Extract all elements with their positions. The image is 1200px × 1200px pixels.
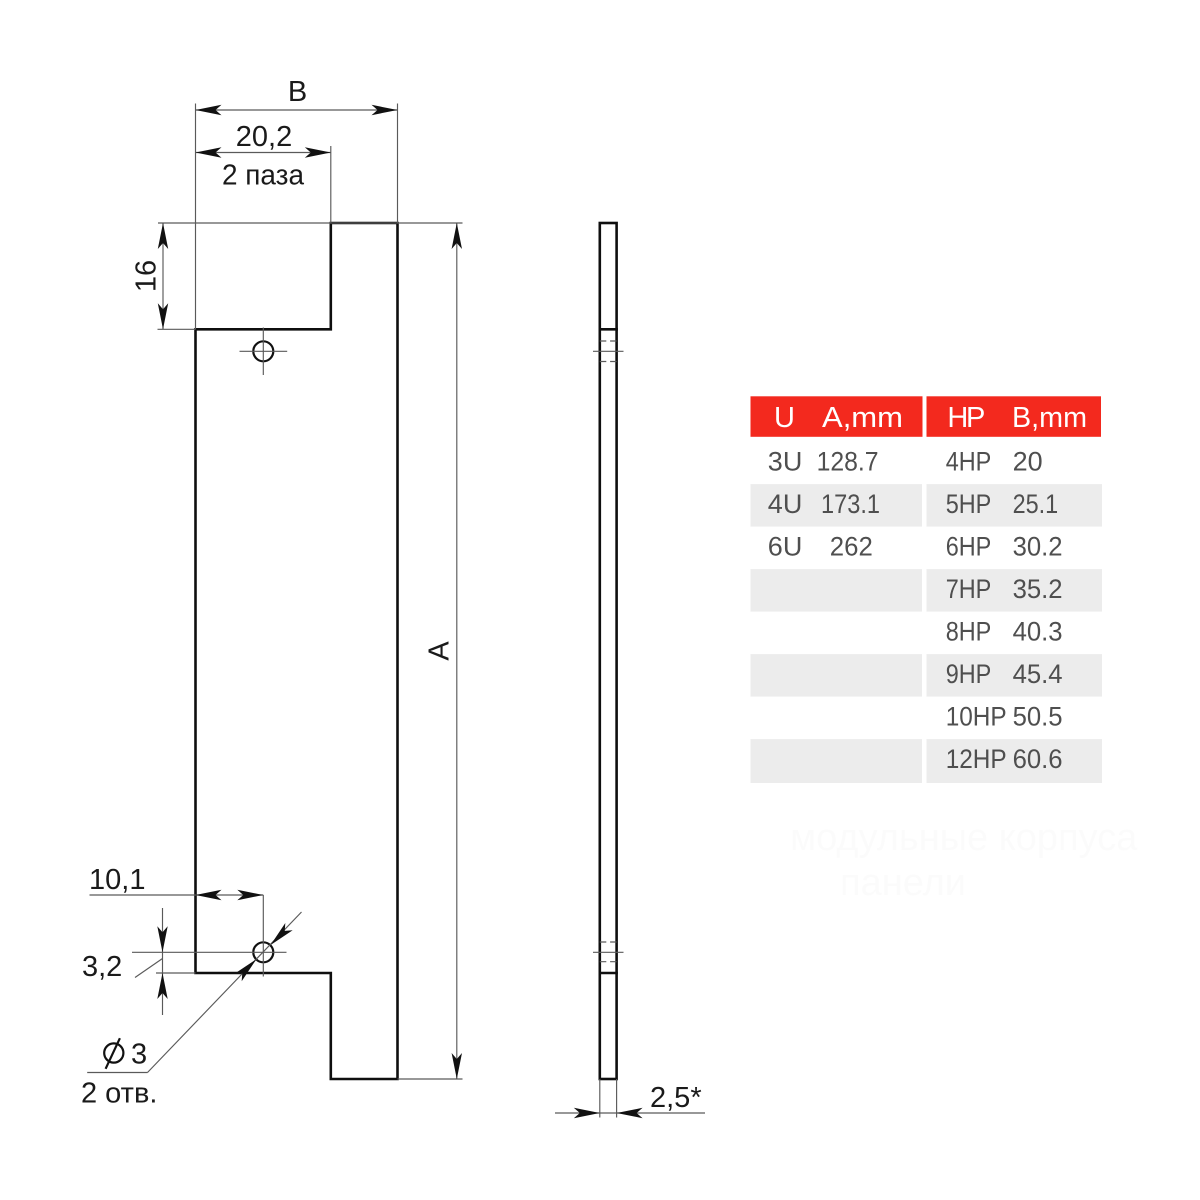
- svg-text:A,mm: A,mm: [822, 402, 903, 434]
- svg-text:2,5*: 2,5*: [650, 1082, 702, 1114]
- dimension 3,2: [162, 908, 164, 1015]
- hole H1 crosshair: [240, 350, 288, 352]
- svg-text:6HP: 6HP: [946, 532, 992, 562]
- diameter symbol: [104, 1043, 123, 1062]
- svg-text:6U: 6U: [768, 532, 803, 562]
- svg-text:20: 20: [1013, 447, 1043, 477]
- hole H2 centerline vertical: [262, 895, 264, 977]
- hidden hole bottom: [600, 941, 617, 943]
- extension line bottom edge y=1079: [398, 1078, 463, 1080]
- panel outline: [196, 223, 398, 1079]
- svg-text:3: 3: [131, 1039, 147, 1071]
- svg-text:B: B: [288, 76, 307, 108]
- svg-text:4HP: 4HP: [946, 447, 992, 477]
- svg-text:B,mm: B,mm: [1012, 402, 1087, 434]
- svg-text:10,1: 10,1: [89, 864, 145, 896]
- svg-text:3,2: 3,2: [82, 951, 122, 983]
- svg-text:A: A: [424, 641, 456, 661]
- svg-text:25.1: 25.1: [1013, 489, 1059, 519]
- svg-text:7HP: 7HP: [946, 574, 992, 604]
- side view outline: [600, 223, 617, 1079]
- leader 3,2: [135, 959, 163, 978]
- faint watermark: [790, 817, 1138, 904]
- row stripes: [751, 484, 1103, 783]
- dimension 20,2: [196, 152, 331, 154]
- svg-text:262: 262: [830, 532, 873, 562]
- svg-text:8HP: 8HP: [946, 617, 992, 647]
- svg-text:40.3: 40.3: [1013, 617, 1063, 647]
- extension line B right: [397, 104, 399, 224]
- side notch edge top: [600, 328, 617, 331]
- svg-text:50.5: 50.5: [1013, 702, 1063, 732]
- extension line 3,2 lower: [156, 972, 196, 974]
- extension line notch bottom left: [158, 328, 196, 330]
- svg-text:12HP: 12HP: [946, 744, 1007, 774]
- dimension 2,5*: [599, 1079, 601, 1118]
- svg-text:45.4: 45.4: [1013, 659, 1063, 689]
- svg-text:30.2: 30.2: [1013, 532, 1063, 562]
- hole H2 centerline horizontal: [132, 951, 287, 953]
- svg-text:16: 16: [131, 260, 163, 292]
- svg-text:модульные корпуса: модульные корпуса: [790, 817, 1138, 859]
- hole H1 (top): [253, 341, 273, 361]
- extension line 20,2 right: [330, 146, 332, 223]
- table rows text: [768, 447, 1063, 775]
- dimension 16: [162, 223, 164, 329]
- svg-text:20,2: 20,2: [236, 121, 292, 153]
- svg-text:128.7: 128.7: [817, 447, 879, 477]
- extension line B left: [195, 104, 197, 330]
- svg-text:3U: 3U: [768, 447, 803, 477]
- svg-text:2 паза: 2 паза: [222, 160, 305, 192]
- svg-text:U: U: [774, 402, 795, 434]
- dimension B: [196, 109, 398, 111]
- centerline hole top: [593, 350, 624, 352]
- svg-text:173.1: 173.1: [821, 489, 880, 519]
- dimension A: [456, 223, 458, 1079]
- hole H2 (bottom): [253, 942, 273, 962]
- svg-text:60.6: 60.6: [1013, 744, 1063, 774]
- side notch edge bottom: [600, 972, 617, 975]
- table header left: [751, 396, 923, 437]
- dimension 10,1: [90, 894, 264, 896]
- centerline hole bottom: [593, 951, 624, 953]
- svg-text:35.2: 35.2: [1013, 574, 1063, 604]
- leader diameter 3: [87, 1072, 147, 1074]
- table header right: [927, 396, 1102, 437]
- svg-text:4U: 4U: [768, 489, 803, 519]
- svg-text:5HP: 5HP: [946, 489, 992, 519]
- hidden hole top: [600, 340, 617, 342]
- svg-text:HP: HP: [947, 402, 985, 434]
- svg-text:9HP: 9HP: [946, 659, 992, 689]
- svg-text:10HP: 10HP: [946, 702, 1007, 732]
- extension line top edge y=223: [158, 222, 463, 224]
- svg-text:панели: панели: [840, 862, 966, 904]
- svg-text:2 отв.: 2 отв.: [81, 1078, 157, 1110]
